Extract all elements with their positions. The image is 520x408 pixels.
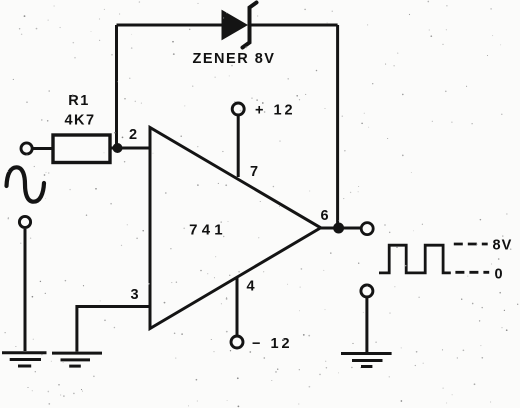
svg-text:3: 3 — [130, 287, 138, 303]
svg-text:0: 0 — [495, 267, 503, 283]
svg-text:8V: 8V — [493, 238, 513, 254]
wire pin 7 supply — [237, 116, 240, 177]
ground G3 — [341, 354, 392, 367]
svg-text:4: 4 — [246, 279, 254, 295]
svg-text:− 12: − 12 — [252, 336, 293, 352]
svg-text:7: 7 — [250, 164, 258, 180]
wire pin 4 supply — [236, 278, 239, 336]
ground G1 — [2, 353, 47, 366]
terminal +12 circle — [232, 103, 244, 115]
svg-text:ZENER 8V: ZENER 8V — [193, 51, 276, 67]
svg-text:4K7: 4K7 — [64, 113, 95, 129]
node dot output junction — [333, 223, 344, 234]
zener diode cathode bar — [243, 3, 257, 48]
op-amp U1 741 triangle — [150, 128, 321, 329]
input terminal circle bottom — [19, 216, 30, 227]
dashed level line 0 — [455, 271, 489, 274]
dashed level line 8V — [454, 243, 488, 246]
node dot pin2 junction — [113, 143, 123, 153]
svg-text:R1: R1 — [68, 93, 90, 109]
wire pin 3 — [77, 307, 150, 352]
ground G2 — [52, 353, 102, 366]
wire output — [321, 227, 360, 230]
wire input to R1 — [33, 147, 53, 150]
svg-text:741: 741 — [189, 222, 227, 239]
zener diode anode triangle — [222, 11, 247, 40]
resistor R1 body — [53, 135, 110, 163]
wire top feedback horizontal left segment — [117, 24, 223, 27]
terminal -12 circle — [231, 336, 243, 348]
svg-text:2: 2 — [129, 127, 137, 143]
wire feedback vertical left — [115, 25, 118, 148]
wire pin 2 — [110, 147, 150, 150]
output ground terminal circle — [361, 285, 373, 297]
sine source symbol — [7, 167, 45, 201]
output terminal circle — [361, 223, 373, 235]
wire output ground — [365, 298, 368, 352]
svg-text:+ 12: + 12 — [255, 103, 296, 119]
wire top feedback horizontal right segment — [250, 24, 338, 27]
wire input terminal 2 to ground — [24, 229, 27, 351]
wire feedback vertical right — [336, 25, 339, 228]
svg-text:6: 6 — [320, 208, 328, 224]
square wave output waveform — [379, 245, 451, 273]
input terminal circle top — [21, 143, 32, 154]
